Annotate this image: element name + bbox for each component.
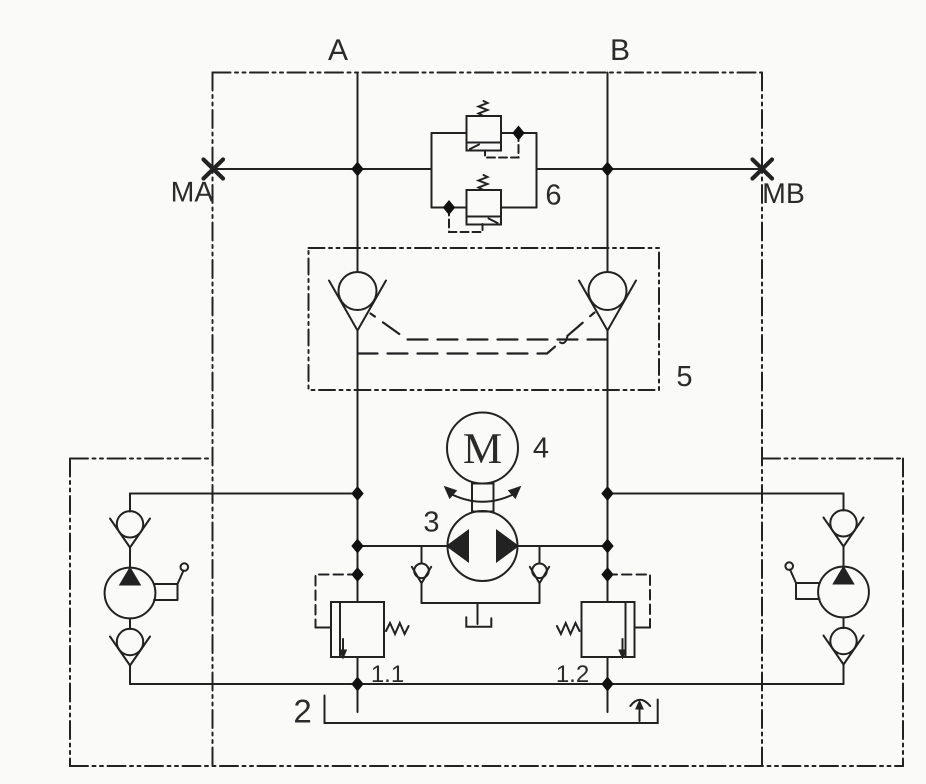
svg-text:MB: MB xyxy=(762,178,805,210)
svg-text:1.1: 1.1 xyxy=(371,661,404,688)
svg-text:B: B xyxy=(610,34,630,67)
svg-text:A: A xyxy=(328,34,348,67)
svg-text:2: 2 xyxy=(293,693,311,730)
svg-text:MA: MA xyxy=(171,177,214,209)
svg-text:4: 4 xyxy=(533,433,549,465)
svg-text:M: M xyxy=(463,424,502,473)
svg-text:1.2: 1.2 xyxy=(556,661,589,688)
svg-text:6: 6 xyxy=(545,180,561,212)
svg-text:3: 3 xyxy=(423,507,439,539)
svg-text:5: 5 xyxy=(676,361,692,393)
